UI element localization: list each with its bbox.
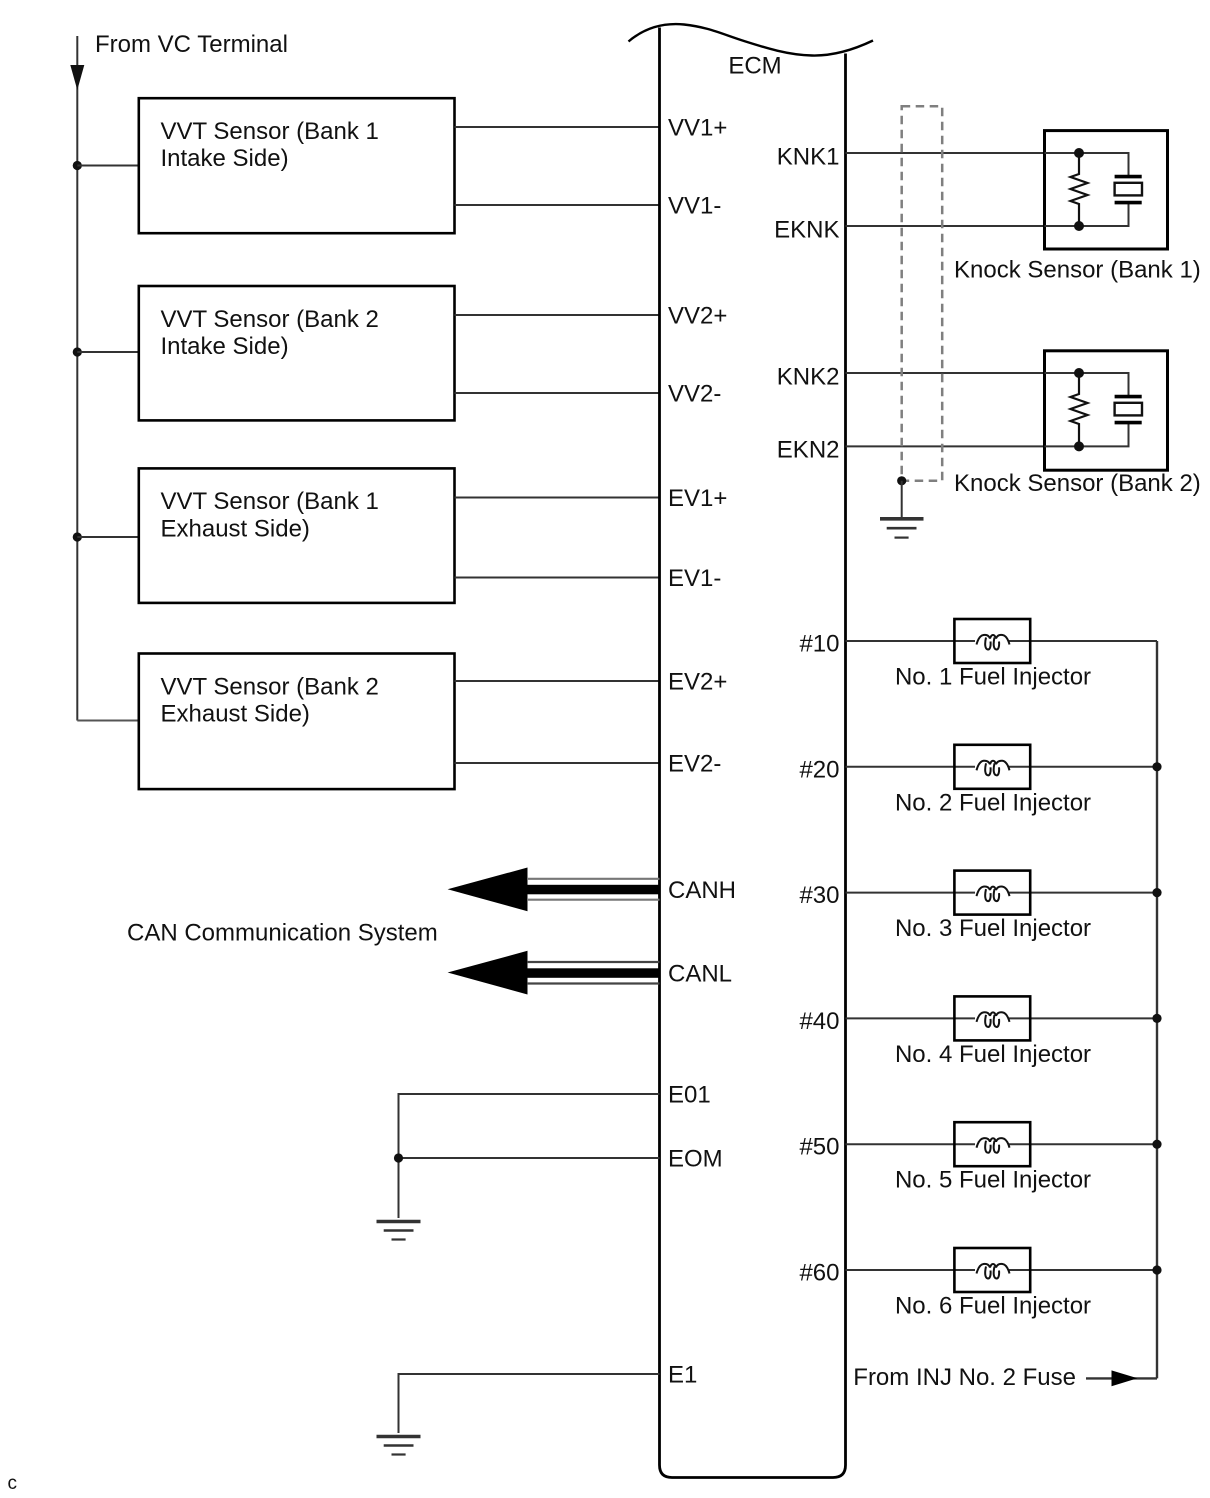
knock sensor 1 internal wiring [1045, 153, 1129, 226]
svg-text:ECM: ECM [728, 53, 781, 80]
wire VC to VVT3 [77, 536, 139, 538]
svg-text:#50: #50 [799, 1134, 839, 1161]
fuel injector 1 coil [977, 635, 1010, 650]
svg-text:VV2+: VV2+ [668, 303, 727, 330]
VVT sensor box 2 (Bank 2 Intake) [139, 286, 455, 420]
svg-text:VVT Sensor (Bank 2: VVT Sensor (Bank 2 [161, 673, 379, 700]
fuel injector 4 coil [977, 1012, 1010, 1027]
svg-text:c: c [8, 1473, 18, 1494]
injector 3 wire left [846, 892, 955, 894]
svg-text:CANH: CANH [668, 877, 736, 904]
svg-text:#60: #60 [799, 1260, 839, 1287]
wire EKNK [846, 225, 1045, 227]
junction dot VC-box2 [73, 347, 82, 356]
ground E1 [377, 1437, 421, 1455]
fuel injector 3 box [954, 871, 1030, 915]
fuel injector 5 box [954, 1122, 1030, 1166]
shield dashed box around knock wires [902, 106, 943, 481]
wire VC feed vertical [76, 36, 78, 721]
wire EKN2 [846, 445, 1045, 447]
injector 1 wire through [954, 640, 1030, 642]
VVT sensor box 3 (Bank 1 Exhaust) [139, 468, 455, 603]
knock sensor 2 internal wiring [1045, 373, 1129, 446]
svg-text:No. 2 Fuel Injector: No. 2 Fuel Injector [895, 789, 1091, 816]
svg-text:No. 6 Fuel Injector: No. 6 Fuel Injector [895, 1293, 1091, 1320]
svg-text:Exhaust Side): Exhaust Side) [161, 515, 310, 542]
wire VVT4 EV2+ [455, 680, 660, 682]
svg-text:E1: E1 [668, 1362, 697, 1389]
svg-text:EKN2: EKN2 [777, 437, 840, 464]
wire VVT3 EV1+ [455, 497, 660, 499]
injector 6 wire through [954, 1269, 1030, 1271]
wire E01 [399, 1094, 660, 1158]
injector 2 wire left [846, 766, 955, 768]
node fuse arrowhead [1112, 1370, 1138, 1386]
svg-text:No. 4 Fuel Injector: No. 4 Fuel Injector [895, 1041, 1091, 1068]
ECM torn-edge wave [629, 24, 874, 55]
injector bus vertical [1156, 641, 1158, 1378]
svg-text:From VC Terminal: From VC Terminal [95, 31, 288, 58]
fuel injector 2 coil [977, 761, 1010, 776]
bus junction dots [1152, 762, 1161, 771]
svg-text:VV2-: VV2- [668, 381, 721, 408]
injector 2 wire through [954, 766, 1030, 768]
svg-text:VVT Sensor (Bank 1: VVT Sensor (Bank 1 [161, 118, 379, 145]
wire VVT2 VV2+ [455, 314, 660, 316]
injector 2 wire right [1030, 766, 1157, 768]
svg-text:From INJ No. 2 Fuse: From INJ No. 2 Fuse [853, 1364, 1076, 1391]
knock sensor 2 dots [1074, 368, 1084, 378]
svg-text:EKNK: EKNK [774, 216, 839, 243]
svg-text:Knock Sensor (Bank 1): Knock Sensor (Bank 1) [954, 257, 1201, 284]
VVT sensor box 1 (Bank 1 Intake) [139, 98, 455, 233]
fuel injector 4 box [954, 996, 1030, 1040]
ground shield [880, 519, 924, 538]
junction dot VC-box3 [73, 532, 82, 541]
node VC feed arrowhead [70, 65, 84, 90]
fuel injector 3 coil [977, 887, 1010, 902]
svg-text:#20: #20 [799, 756, 839, 783]
svg-text:No. 5 Fuel Injector: No. 5 Fuel Injector [895, 1167, 1091, 1194]
injector 5 wire through [954, 1143, 1030, 1145]
wire KNK2 [846, 372, 1045, 374]
svg-text:Intake Side): Intake Side) [161, 333, 289, 360]
wire fuse feed [1086, 1377, 1157, 1379]
svg-text:#10: #10 [799, 631, 839, 658]
knock sensor 2 box [1045, 351, 1168, 470]
svg-text:KNK2: KNK2 [777, 363, 840, 390]
wire VVT1 VV1+ [455, 126, 660, 128]
injector 1 wire left [846, 640, 955, 642]
wire VC to VVT2 [77, 351, 139, 353]
wire VVT4 EV2- [455, 762, 660, 764]
junction dot E01/EOM [394, 1153, 403, 1162]
svg-text:VV1+: VV1+ [668, 115, 727, 142]
fuel injector 6 box [954, 1248, 1030, 1292]
wire VC to VVT1 [77, 165, 139, 167]
injector 1 wire right [1030, 640, 1157, 642]
wire EOM [399, 1158, 660, 1218]
knock sensor 1 resistor [1071, 153, 1088, 226]
ECM body outline [660, 28, 846, 1478]
fuel injector 5 coil [977, 1138, 1010, 1153]
injector 3 wire right [1030, 892, 1157, 894]
svg-text:Intake Side): Intake Side) [161, 145, 289, 172]
svg-text:KNK1: KNK1 [777, 143, 840, 170]
fuel injector 2 box [954, 745, 1030, 789]
wire VC to VVT4 [77, 720, 139, 722]
wire VVT2 VV2- [455, 392, 660, 394]
CAN arrow CANH [448, 868, 660, 912]
fuel injector 1 box [954, 619, 1030, 663]
knock sensor 1 box [1045, 131, 1168, 249]
knock sensor 2 piezo element [1115, 397, 1142, 423]
wire VVT1 VV1- [455, 204, 660, 206]
fuel injector 6 coil [977, 1264, 1010, 1279]
svg-text:EV1+: EV1+ [668, 485, 727, 512]
svg-text:E01: E01 [668, 1082, 711, 1109]
svg-text:EV1-: EV1- [668, 565, 721, 592]
junction dot VC-box1 [73, 161, 82, 170]
injector 4 wire right [1030, 1017, 1157, 1019]
svg-text:#30: #30 [799, 882, 839, 909]
wire VVT3 EV1- [455, 577, 660, 579]
knock sensor 1 piezo element [1115, 177, 1142, 203]
injector 6 wire right [1030, 1269, 1157, 1271]
injector 4 wire through [954, 1017, 1030, 1019]
injector 4 wire left [846, 1017, 955, 1019]
injector 3 wire through [954, 892, 1030, 894]
ground E01/EOM [377, 1222, 421, 1240]
svg-text:#40: #40 [799, 1008, 839, 1035]
junction dot shield ground [897, 476, 906, 485]
svg-text:No. 3 Fuel Injector: No. 3 Fuel Injector [895, 915, 1091, 942]
knock sensor 2 resistor [1071, 373, 1088, 446]
wire shield to ground [901, 481, 903, 517]
injector 6 wire left [846, 1269, 955, 1271]
svg-text:No. 1 Fuel Injector: No. 1 Fuel Injector [895, 664, 1091, 691]
svg-text:EV2+: EV2+ [668, 669, 727, 696]
wire E1 [399, 1374, 660, 1433]
svg-text:VVT Sensor (Bank 1: VVT Sensor (Bank 1 [161, 488, 379, 515]
svg-text:Exhaust Side): Exhaust Side) [161, 701, 310, 728]
svg-text:CANL: CANL [668, 961, 732, 988]
VVT sensor box 4 (Bank 2 Exhaust) [139, 654, 455, 790]
svg-text:Knock Sensor (Bank 2): Knock Sensor (Bank 2) [954, 470, 1201, 497]
svg-text:CAN Communication System: CAN Communication System [127, 920, 438, 947]
svg-text:VV1-: VV1- [668, 193, 721, 220]
svg-text:VVT Sensor (Bank 2: VVT Sensor (Bank 2 [161, 306, 379, 333]
injector 5 wire right [1030, 1143, 1157, 1145]
wire KNK1 [846, 152, 1045, 154]
svg-text:EOM: EOM [668, 1146, 723, 1173]
injector 5 wire left [846, 1143, 955, 1145]
svg-text:EV2-: EV2- [668, 751, 721, 778]
knock sensor 1 dots [1074, 148, 1084, 158]
CAN arrow CANL [448, 951, 660, 995]
